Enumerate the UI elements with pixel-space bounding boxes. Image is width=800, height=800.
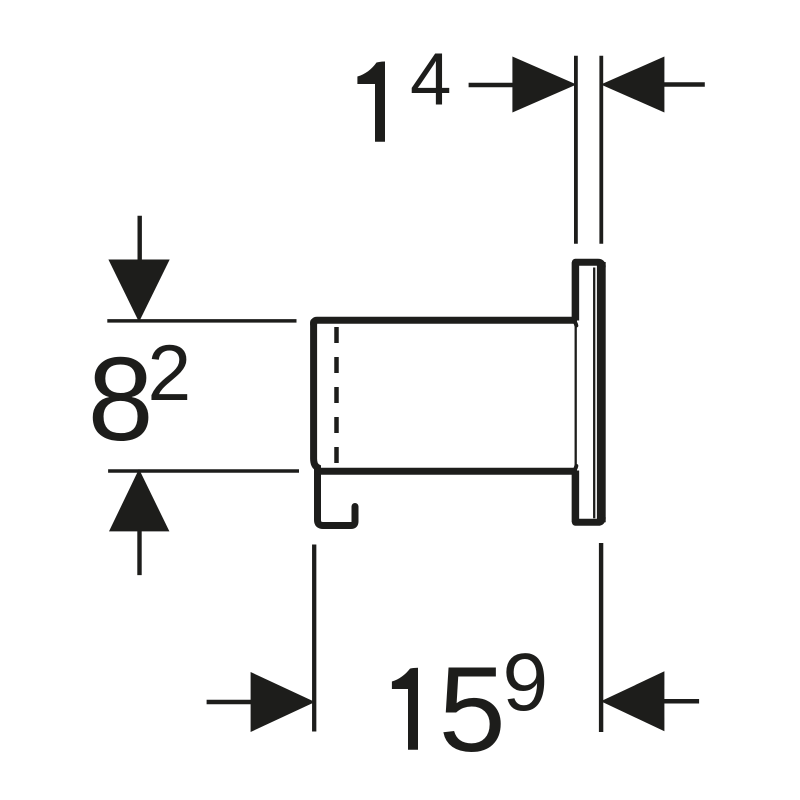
svg-text:4: 4 [410, 38, 451, 121]
bottom dimension right arrowhead [601, 671, 665, 731]
dimension text 1 (bottom dimension first digit) [392, 668, 418, 750]
sleeve hidden edge dashed line [334, 327, 339, 471]
top dimension right arrowhead [601, 57, 665, 113]
top dimension right tail line [664, 82, 705, 87]
left dimension bottom line [108, 469, 299, 473]
svg-text:8: 8 [88, 334, 154, 466]
left dimension top line [107, 319, 296, 323]
sleeve top outline [314, 320, 574, 324]
bottom dimension right tail line [664, 699, 699, 704]
sleeve left edge and bottom hook [314, 322, 355, 526]
svg-text:2: 2 [148, 329, 192, 417]
flange left edge thick lower segment [572, 471, 580, 523]
left dimension up arrowhead [109, 469, 169, 531]
flange bottom edge [575, 518, 602, 523]
top dimension left tail line [469, 83, 513, 88]
flange right wall thick edge [597, 262, 606, 522]
flange top edge [575, 262, 602, 267]
left dimension lower leader line [137, 531, 141, 576]
flange left edge thick upper segment [572, 262, 580, 320]
top dimension left extension line [574, 56, 578, 244]
svg-text:5: 5 [439, 641, 506, 777]
bottom dimension left arrowhead [251, 672, 315, 732]
flange inner thin line [593, 268, 595, 519]
left dimension upper leader line [137, 216, 141, 261]
top dimension right extension line [599, 56, 603, 244]
sleeve top line end fillet at flange [573, 320, 577, 325]
sleeve bottom outline [319, 468, 574, 475]
left dimension down arrowhead [108, 260, 169, 323]
sleeve bottom line end fillet at flange [573, 466, 577, 471]
bottom dimension right extension line [599, 543, 603, 732]
bottom dimension left tail line [207, 700, 252, 705]
flange left edge thin middle segment [575, 320, 577, 471]
svg-text:9: 9 [503, 637, 549, 728]
top dimension left arrowhead [512, 57, 576, 113]
dimension text 1 (top dimension value) [357, 62, 385, 142]
bottom dimension left extension line [312, 545, 316, 732]
